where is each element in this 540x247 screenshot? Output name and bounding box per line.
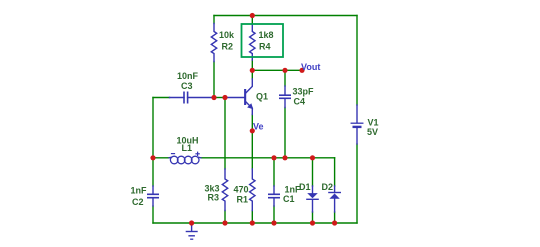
- svg-text:1nF: 1nF: [131, 186, 148, 196]
- svg-text:1k8: 1k8: [259, 30, 274, 40]
- svg-text:Q1: Q1: [256, 92, 268, 102]
- svg-text:10nF: 10nF: [177, 71, 199, 81]
- svg-text:C3: C3: [181, 81, 193, 91]
- svg-text:10k: 10k: [219, 30, 235, 40]
- svg-text:Vout: Vout: [301, 62, 320, 72]
- svg-text:C2: C2: [132, 197, 144, 207]
- svg-text:D1: D1: [299, 182, 311, 192]
- svg-text:C4: C4: [294, 97, 306, 107]
- svg-text:L1: L1: [182, 143, 193, 153]
- svg-text:R4: R4: [259, 42, 271, 52]
- svg-text:V1: V1: [368, 118, 379, 128]
- svg-text:R2: R2: [222, 42, 234, 52]
- svg-text:C1: C1: [283, 194, 295, 204]
- svg-text:5V: 5V: [367, 127, 378, 137]
- svg-text:D2: D2: [322, 182, 334, 192]
- svg-text:33pF: 33pF: [293, 87, 315, 97]
- svg-text:R3: R3: [208, 193, 220, 203]
- svg-text:470: 470: [234, 185, 249, 195]
- svg-text:R1: R1: [237, 195, 249, 205]
- svg-text:Ve: Ve: [253, 122, 264, 132]
